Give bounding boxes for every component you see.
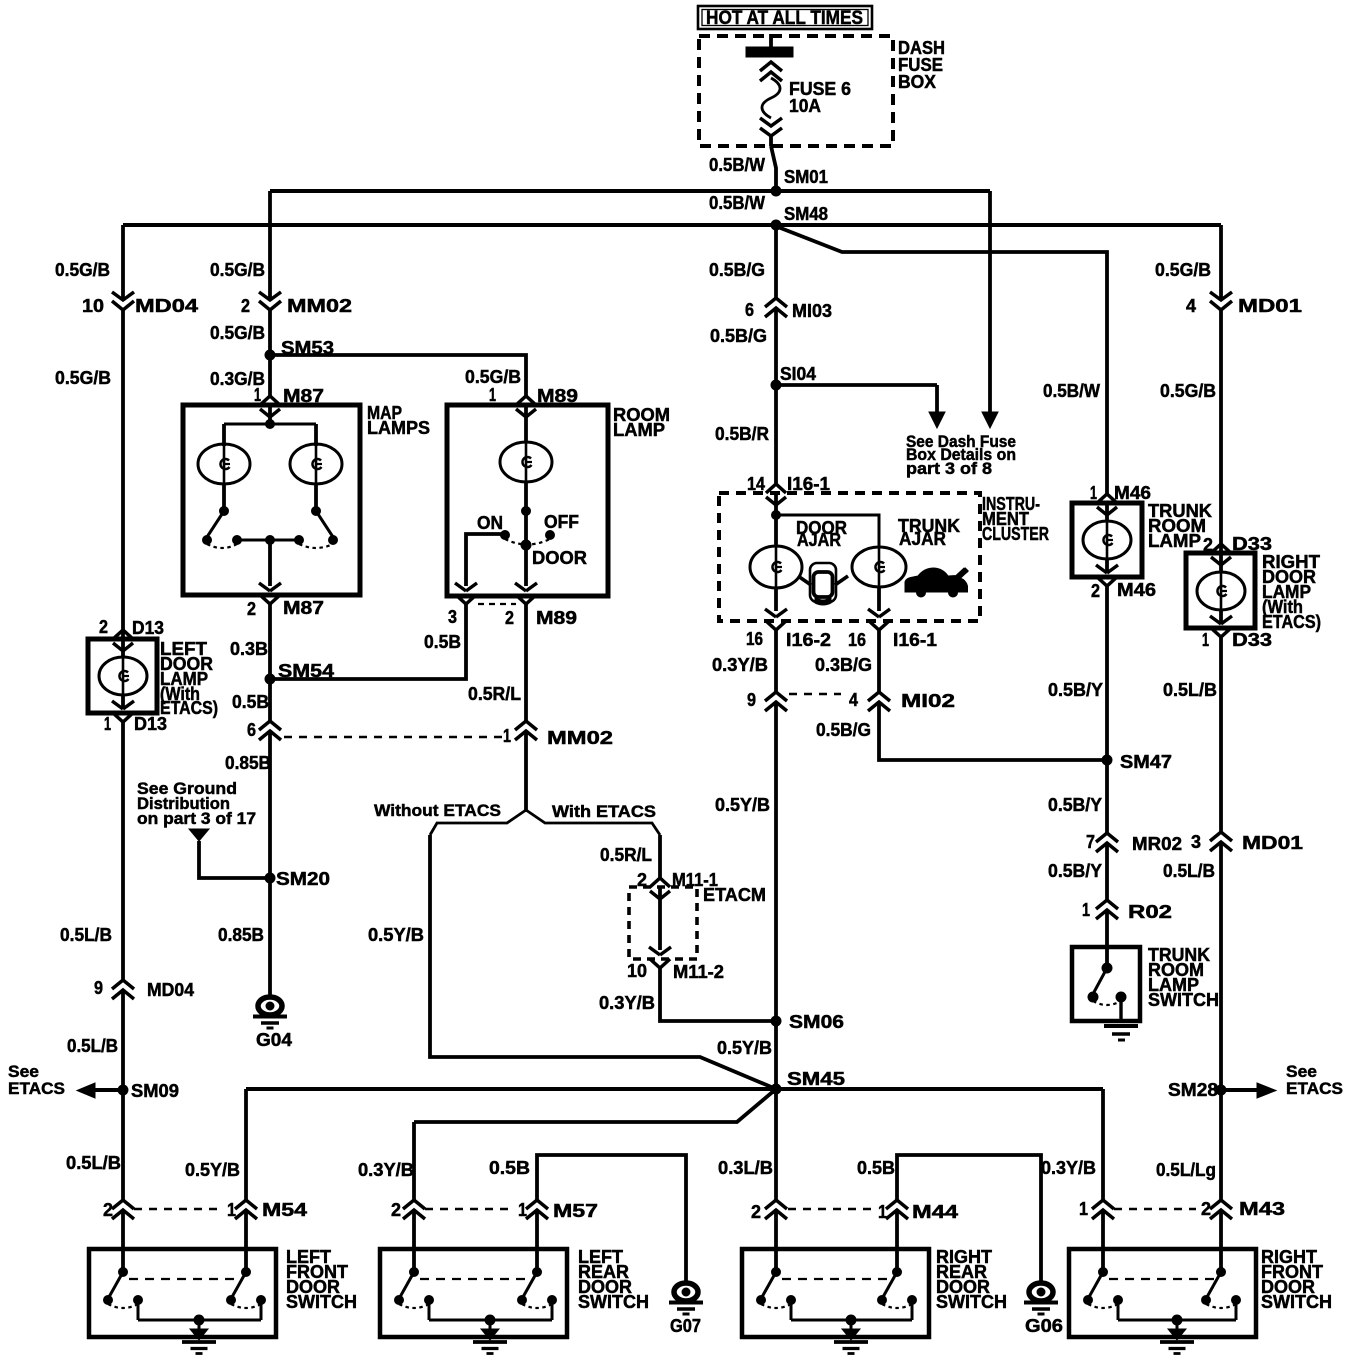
wire MI02-9 to SM06 — [774, 702, 778, 1021]
svg-text:0.3B: 0.3B — [230, 639, 268, 659]
svg-text:MD04: MD04 — [135, 296, 198, 316]
svg-text:0.5B/G: 0.5B/G — [709, 260, 765, 280]
right door lamp D33 box — [1186, 553, 1255, 628]
map lamp switch right — [312, 507, 321, 516]
svg-text:M87: M87 — [283, 598, 324, 618]
wire MD04 to left door lamp — [121, 310, 125, 631]
wire MM02-1 to ETACS split — [524, 731, 528, 812]
svg-text:With ETACS: With ETACS — [552, 802, 656, 821]
wire M87-2 to SM54 — [268, 604, 272, 677]
svg-text:2: 2 — [103, 1200, 113, 1220]
svg-text:AJAR: AJAR — [797, 530, 841, 550]
wire M57-1 into left rear door switch — [535, 1210, 539, 1272]
trunk room lamp switch box — [1072, 947, 1140, 1021]
wire SM45 branch to M57-2 — [414, 1089, 776, 1122]
wire SM01 right drop + see-dash-fuse arrow — [988, 191, 992, 412]
room lamp box — [447, 405, 608, 596]
svg-text:SM09: SM09 — [131, 1081, 179, 1101]
door ajar lamp — [774, 515, 778, 546]
svg-text:16: 16 — [848, 630, 866, 650]
wire Without-ETACS branch — [430, 835, 776, 1089]
svg-text:0.5G/B: 0.5G/B — [55, 368, 111, 388]
svg-text:G06: G06 — [1025, 1316, 1063, 1336]
node SM09 + See ETACS arrow — [118, 1085, 128, 1095]
svg-text:ETACS): ETACS) — [1262, 612, 1321, 632]
svg-text:0.5L/B: 0.5L/B — [1163, 861, 1215, 881]
wire inside ETACM — [658, 887, 662, 950]
svg-text:0.5L/B: 0.5L/B — [1163, 680, 1217, 700]
svg-text:M89: M89 — [536, 608, 577, 628]
wire R02 into trunk lamp switch — [1105, 910, 1109, 968]
svg-text:0.5B/G: 0.5B/G — [816, 720, 871, 740]
left front door switch link (dashed) — [129, 1278, 240, 1280]
svg-text:0.5Y/B: 0.5Y/B — [717, 1038, 772, 1058]
svg-text:SWITCH: SWITCH — [1148, 990, 1219, 1010]
wire SM01 to MM02-2 — [268, 191, 272, 300]
svg-text:2: 2 — [1201, 1199, 1211, 1219]
wire SM54 to MM02-6 — [268, 679, 272, 721]
svg-text:4: 4 — [849, 690, 858, 710]
left front door switch box — [89, 1249, 276, 1337]
svg-text:M57: M57 — [553, 1201, 598, 1221]
wire M11-2 to SM06 — [660, 968, 773, 1021]
wire SI04 branch + see-dash-fuse arrow — [776, 383, 937, 387]
right door lamp bulb — [1219, 544, 1223, 572]
trunk lamp switch ground — [1104, 1024, 1138, 1028]
svg-text:Without ETACS: Without ETACS — [374, 801, 501, 820]
svg-text:16: 16 — [746, 629, 763, 649]
wire I16-1 to MI02-4 — [877, 630, 881, 692]
svg-text:3: 3 — [448, 607, 457, 627]
svg-text:SM20: SM20 — [276, 869, 330, 889]
connector MI02 pin4 — [868, 692, 890, 701]
svg-text:0.5Y/B: 0.5Y/B — [715, 795, 770, 815]
fuse F6 element — [760, 62, 782, 71]
wire M46-2 to SM47 — [1105, 586, 1109, 760]
svg-text:1: 1 — [878, 1202, 887, 1222]
left door lamp D13 box — [88, 639, 157, 713]
svg-text:0.5G/B: 0.5G/B — [55, 260, 110, 280]
svg-text:SM45: SM45 — [787, 1069, 845, 1089]
svg-text:0.5R/L: 0.5R/L — [600, 845, 652, 865]
node SM48 — [771, 220, 781, 230]
svg-text:ETACS: ETACS — [8, 1079, 65, 1098]
svg-text:6: 6 — [247, 720, 256, 740]
svg-text:9: 9 — [747, 690, 756, 710]
svg-text:1: 1 — [227, 1200, 236, 1220]
wire SM06 to SM45 — [774, 1021, 778, 1089]
left door lamp bulb — [121, 630, 125, 657]
map lamp common wire — [237, 539, 299, 542]
svg-text:AJAR: AJAR — [899, 529, 946, 549]
wire ON contact to pin3 — [466, 534, 503, 586]
wire I16-2 to MI02-9 — [774, 630, 778, 692]
svg-text:SWITCH: SWITCH — [1261, 1292, 1332, 1312]
right rear door switch contact left — [772, 1268, 781, 1277]
svg-text:1: 1 — [104, 714, 111, 734]
connector M57 pin1 — [526, 1200, 548, 1209]
svg-text:0.5G/B: 0.5G/B — [1160, 381, 1216, 401]
wire MD01 to D33-2 — [1219, 310, 1223, 544]
node SM47 — [1102, 755, 1112, 765]
wire SM45 bus left — [246, 1087, 776, 1091]
wire MD04-9 to SM09 — [121, 990, 125, 1090]
wire M57-2 drop — [412, 1122, 416, 1200]
node SM06 — [771, 1016, 781, 1026]
svg-text:0.5Y/B: 0.5Y/B — [185, 1160, 240, 1180]
connector M43 pin1 — [1092, 1200, 1114, 1209]
svg-text:SM06: SM06 — [789, 1012, 844, 1032]
right front door switch box — [1069, 1249, 1256, 1337]
right rear door switch contact right — [893, 1268, 902, 1277]
svg-text:0.5B: 0.5B — [857, 1158, 895, 1178]
svg-text:2: 2 — [391, 1200, 401, 1220]
wire M44-2 into right rear door switch — [774, 1210, 778, 1272]
svg-text:ETACS): ETACS) — [160, 698, 218, 718]
map lamp bulb right — [314, 424, 318, 446]
svg-text:0.3Y/B: 0.3Y/B — [712, 655, 768, 675]
wire SM54 to room lamp pin3 — [270, 604, 466, 679]
connector M11-2 pin10 — [649, 947, 660, 955]
left rear door switch contact left — [410, 1268, 419, 1277]
svg-text:2: 2 — [247, 599, 256, 619]
wire SM45 bus right — [776, 1087, 1103, 1091]
right rear door switch ground — [842, 1329, 860, 1340]
left rear door switch link (dashed) — [420, 1278, 531, 1280]
svg-text:MD01: MD01 — [1242, 833, 1303, 853]
wire SM53 to room lamp — [270, 355, 526, 396]
svg-text:0.3B/G: 0.3B/G — [815, 655, 872, 675]
connector MR02 pin7 — [1096, 833, 1118, 842]
svg-text:0.5B/G: 0.5B/G — [710, 326, 767, 346]
left rear door switch ground — [481, 1329, 499, 1340]
svg-text:R02: R02 — [1128, 902, 1172, 922]
svg-text:SM28: SM28 — [1168, 1080, 1218, 1100]
right front door switch common wire — [1117, 1300, 1120, 1320]
connector M43 pin2 — [1210, 1200, 1232, 1209]
svg-text:0.5G/B: 0.5G/B — [1155, 260, 1211, 280]
svg-text:0.5B: 0.5B — [424, 632, 461, 652]
wire SM45 to M54-1 drop — [244, 1089, 248, 1200]
map lamp switch left — [220, 507, 229, 516]
svg-text:2: 2 — [751, 1202, 761, 1222]
connector M57 pin2 — [403, 1200, 425, 1209]
svg-text:LAMPS: LAMPS — [367, 418, 430, 438]
wire M54-2 into left front door switch — [121, 1210, 125, 1272]
node SI04 — [771, 380, 781, 390]
connector D13 pin1 — [112, 701, 123, 709]
room lamp switch DOOR — [521, 540, 531, 550]
svg-text:1: 1 — [518, 1200, 527, 1220]
svg-text:0.85B: 0.85B — [225, 753, 271, 773]
left front door switch contact left — [119, 1268, 128, 1277]
connector I16-2 pin16 — [765, 609, 776, 617]
svg-text:MI03: MI03 — [792, 301, 832, 321]
svg-text:0.5B/Y: 0.5B/Y — [1048, 795, 1102, 815]
svg-text:7: 7 — [1086, 832, 1095, 852]
connector D33 pin1 — [1210, 616, 1221, 624]
svg-text:0.5B: 0.5B — [232, 692, 269, 712]
svg-text:0.3Y/B: 0.3Y/B — [599, 993, 655, 1013]
wire fuse box entry — [769, 34, 773, 47]
svg-text:10A: 10A — [789, 96, 821, 116]
svg-text:0.3L/B: 0.3L/B — [718, 1158, 773, 1178]
svg-text:0.5G/B: 0.5G/B — [210, 260, 265, 280]
node SM20 — [265, 873, 275, 883]
svg-text:1: 1 — [1082, 900, 1090, 920]
svg-text:M54: M54 — [262, 1200, 307, 1220]
right rear door switch link (dashed) — [782, 1278, 891, 1280]
svg-text:0.5G/B: 0.5G/B — [210, 323, 265, 343]
svg-text:MM02: MM02 — [287, 296, 352, 316]
svg-text:10: 10 — [82, 296, 104, 316]
connector M54 pin2 — [112, 1200, 134, 1209]
connector M44 pin1 — [886, 1200, 908, 1209]
connector MI03 pin6 — [765, 298, 787, 307]
svg-text:SM48: SM48 — [784, 204, 828, 224]
map lamps box — [183, 405, 360, 595]
wire M54-1 into left front door switch — [244, 1210, 248, 1272]
wire D13 to MD04-9 — [121, 722, 125, 980]
cluster feed junction — [774, 493, 778, 515]
wire SM48 to MD01-4 — [1219, 225, 1223, 300]
left rear door switch common wire — [428, 1300, 431, 1320]
svg-text:0.5B/W: 0.5B/W — [1043, 381, 1100, 401]
map lamps feed junction — [268, 405, 272, 424]
wire MM02-6 to SM20 — [268, 731, 272, 876]
svg-text:0.3Y/B: 0.3Y/B — [358, 1160, 414, 1180]
dash fuse box (dashed) — [699, 36, 893, 146]
trunk room lamp bulb — [1105, 503, 1109, 522]
svg-text:SM01: SM01 — [784, 167, 828, 187]
svg-text:1: 1 — [1090, 483, 1097, 503]
svg-text:0.5L/B: 0.5L/B — [60, 925, 112, 945]
node SM54 — [265, 674, 275, 684]
svg-text:0.5B/Y: 0.5B/Y — [1048, 861, 1102, 881]
svg-text:0.5L/B: 0.5L/B — [66, 1153, 121, 1173]
room lamp junction — [522, 507, 531, 516]
svg-text:MM02: MM02 — [547, 728, 613, 748]
svg-text:ETACS: ETACS — [1286, 1079, 1343, 1098]
ground G06 — [1029, 1283, 1053, 1301]
svg-text:BOX: BOX — [898, 72, 936, 92]
svg-text:2: 2 — [505, 608, 514, 628]
svg-text:0.5L/B: 0.5L/B — [67, 1036, 118, 1056]
svg-text:0.5B: 0.5B — [489, 1158, 530, 1178]
svg-text:SWITCH: SWITCH — [578, 1292, 649, 1312]
svg-text:ON: ON — [477, 513, 503, 533]
wire SM09 to M54-2 — [121, 1090, 125, 1200]
svg-text:MD04: MD04 — [147, 980, 194, 1000]
wire G07 link — [537, 1155, 686, 1284]
instrument cluster box (dashed) — [719, 493, 980, 621]
wire SM28 to M43-2 — [1219, 1090, 1223, 1200]
wire SM45 to M43-1 drop — [1101, 1089, 1105, 1200]
left front door switch common wire — [137, 1300, 140, 1320]
svg-text:M11-2: M11-2 — [673, 962, 724, 982]
right front door switch ground — [1168, 1329, 1186, 1340]
connector M46 pin2 — [1096, 565, 1107, 573]
wire SM01 bus — [270, 189, 990, 193]
svg-text:SM47: SM47 — [1120, 752, 1172, 772]
svg-text:SI04: SI04 — [780, 364, 816, 384]
right front door switch contact left — [1099, 1268, 1108, 1277]
svg-text:M46: M46 — [1117, 580, 1156, 600]
trunk ajar lamp — [852, 547, 906, 587]
trunk ajar car icon — [905, 568, 968, 592]
connector M44 pin2 — [765, 1200, 787, 1209]
connector M89 pin3 — [455, 583, 466, 591]
svg-text:0.5R/L: 0.5R/L — [468, 684, 521, 704]
wire MM02 to SM53 — [268, 310, 272, 355]
wire SM47 to MR02-7 — [1105, 760, 1109, 833]
svg-text:D13: D13 — [134, 714, 167, 734]
svg-text:MI02: MI02 — [901, 691, 955, 711]
node SM53 — [265, 350, 275, 360]
svg-text:0.85B: 0.85B — [218, 925, 264, 945]
wire SM48 branch to trunk-lamp column — [778, 227, 1107, 494]
trunk room lamp box — [1072, 503, 1142, 577]
door ajar car icon — [810, 563, 836, 602]
wire MI03 to SI04 — [774, 308, 778, 385]
left rear door switch box — [380, 1249, 567, 1337]
svg-text:6: 6 — [745, 300, 754, 320]
svg-text:D13: D13 — [132, 618, 164, 638]
svg-text:0.5G/B: 0.5G/B — [465, 367, 521, 387]
fuse terminal bar — [746, 47, 793, 57]
svg-text:M46: M46 — [1114, 483, 1151, 503]
svg-text:CLUSTER: CLUSTER — [982, 524, 1049, 544]
connector MM02 pin6 — [259, 721, 281, 730]
svg-text:M43: M43 — [1239, 1199, 1285, 1219]
svg-text:G04: G04 — [256, 1030, 292, 1050]
svg-text:2: 2 — [1091, 581, 1100, 601]
wire DOOR pole to pin2 — [524, 545, 528, 586]
connector I16-1 pin16 — [868, 609, 879, 617]
left rear door switch contact right — [533, 1268, 542, 1277]
right rear door switch box — [742, 1249, 929, 1337]
power label HOT AT ALL TIMES — [698, 6, 872, 29]
svg-text:1: 1 — [1079, 1199, 1088, 1219]
svg-text:9: 9 — [94, 978, 103, 998]
svg-text:LAMP: LAMP — [613, 420, 665, 440]
connector link MM02 (dashed) — [284, 736, 505, 738]
ETACM box (dashed) — [629, 887, 697, 959]
svg-text:MR02: MR02 — [1132, 834, 1182, 854]
wire split to Without-ETACS branch — [430, 810, 526, 835]
wire M43-2 into right front door switch — [1219, 1210, 1223, 1272]
connector MI02 pin9 — [765, 692, 787, 701]
svg-text:2: 2 — [99, 617, 108, 637]
svg-text:OFF: OFF — [544, 512, 579, 532]
connector MD01 pin4 — [1210, 292, 1232, 300]
wire SM48 to MD04-10 — [121, 225, 125, 300]
left front door switch contact right — [242, 1268, 251, 1277]
wire G06 link — [897, 1155, 1041, 1284]
wire MI02-4 to SM47 — [879, 702, 1102, 760]
svg-text:1: 1 — [503, 726, 511, 746]
svg-text:1: 1 — [254, 385, 261, 405]
node SM45 — [771, 1084, 781, 1094]
wire M89-2 to MM02-1 — [524, 604, 528, 721]
wire SM20 to G04 — [268, 878, 272, 996]
wire M44-1 into right rear door switch — [895, 1210, 899, 1272]
svg-text:M44: M44 — [912, 1202, 958, 1222]
svg-text:0.5B/W: 0.5B/W — [709, 193, 765, 213]
svg-text:D33: D33 — [1232, 630, 1272, 650]
svg-text:MD01: MD01 — [1238, 296, 1302, 316]
node SM28 + See ETACS arrow — [1216, 1085, 1226, 1095]
wire MD01-3 to SM28 — [1219, 842, 1223, 1090]
connector M89 pin2 — [515, 583, 526, 591]
svg-text:2: 2 — [241, 296, 250, 316]
ground G04 — [258, 997, 282, 1015]
svg-text:on part 3 of 17: on part 3 of 17 — [137, 809, 256, 828]
svg-text:0.5Y/B: 0.5Y/B — [368, 925, 424, 945]
wire SM48 to MI03-6 — [774, 225, 778, 298]
connector MM02 pin2 — [259, 292, 281, 300]
wire MR02 to R02-1 — [1105, 843, 1109, 900]
right front door switch link (dashed) — [1109, 1278, 1215, 1280]
svg-text:SWITCH: SWITCH — [936, 1292, 1007, 1312]
right front door switch contact right — [1217, 1268, 1226, 1277]
svg-text:ETACM: ETACM — [703, 885, 766, 905]
svg-text:G07: G07 — [670, 1316, 701, 1336]
svg-text:0.3Y/B: 0.3Y/B — [1041, 1158, 1096, 1178]
map lamp bulb left — [222, 424, 226, 446]
svg-text:3: 3 — [1191, 832, 1201, 852]
svg-text:0.5B/R: 0.5B/R — [715, 424, 769, 444]
left front door switch ground — [190, 1329, 208, 1340]
connector M54 pin1 — [235, 1200, 257, 1209]
room lamp bulb — [524, 405, 528, 443]
wire With-ETACS to M11-1 — [658, 835, 662, 878]
connector R02 pin1 — [1096, 900, 1118, 909]
svg-text:0.5B/Y: 0.5B/Y — [1048, 680, 1103, 700]
svg-text:I16-2: I16-2 — [786, 630, 831, 650]
svg-text:LAMP: LAMP — [1148, 531, 1201, 551]
svg-text:0.5L/Lg: 0.5L/Lg — [1156, 1160, 1216, 1180]
connector MD01 pin3 — [1210, 832, 1232, 841]
wire SM53 to M87-1 — [268, 355, 272, 396]
svg-text:10: 10 — [627, 961, 647, 981]
wire M43-1 into right front door switch — [1101, 1210, 1105, 1272]
connector M87 pin2 — [259, 583, 270, 591]
connector MD04 pin9 — [112, 980, 134, 989]
svg-text:0.5B/W: 0.5B/W — [709, 155, 765, 175]
trunk lamp switch contacts — [1102, 963, 1112, 973]
svg-text:DOOR: DOOR — [532, 548, 587, 568]
svg-text:1: 1 — [489, 385, 496, 405]
wire SM48 bus — [123, 223, 1221, 227]
svg-text:HOT AT ALL TIMES: HOT AT ALL TIMES — [706, 8, 863, 29]
svg-text:SWITCH: SWITCH — [286, 1292, 357, 1312]
svg-text:4: 4 — [1186, 296, 1196, 316]
right rear door switch common wire — [790, 1300, 793, 1320]
node SM01 — [771, 186, 781, 196]
wire M57-2 into left rear door switch — [412, 1210, 416, 1272]
wire SM45 to M44-2 — [774, 1089, 778, 1200]
wire split to With-ETACS branch — [526, 810, 660, 835]
svg-text:1: 1 — [1202, 630, 1209, 650]
connector MD04 pin10 — [112, 292, 134, 300]
ground G07 — [674, 1283, 698, 1301]
svg-text:part 3 of 8: part 3 of 8 — [906, 459, 992, 478]
wire SI04 to I16-1 pin14 — [774, 385, 778, 484]
svg-text:I16-1: I16-1 — [893, 630, 937, 650]
wire D33-1 to MD01-3 — [1219, 637, 1223, 832]
connector MM02 pin1 — [515, 721, 537, 730]
